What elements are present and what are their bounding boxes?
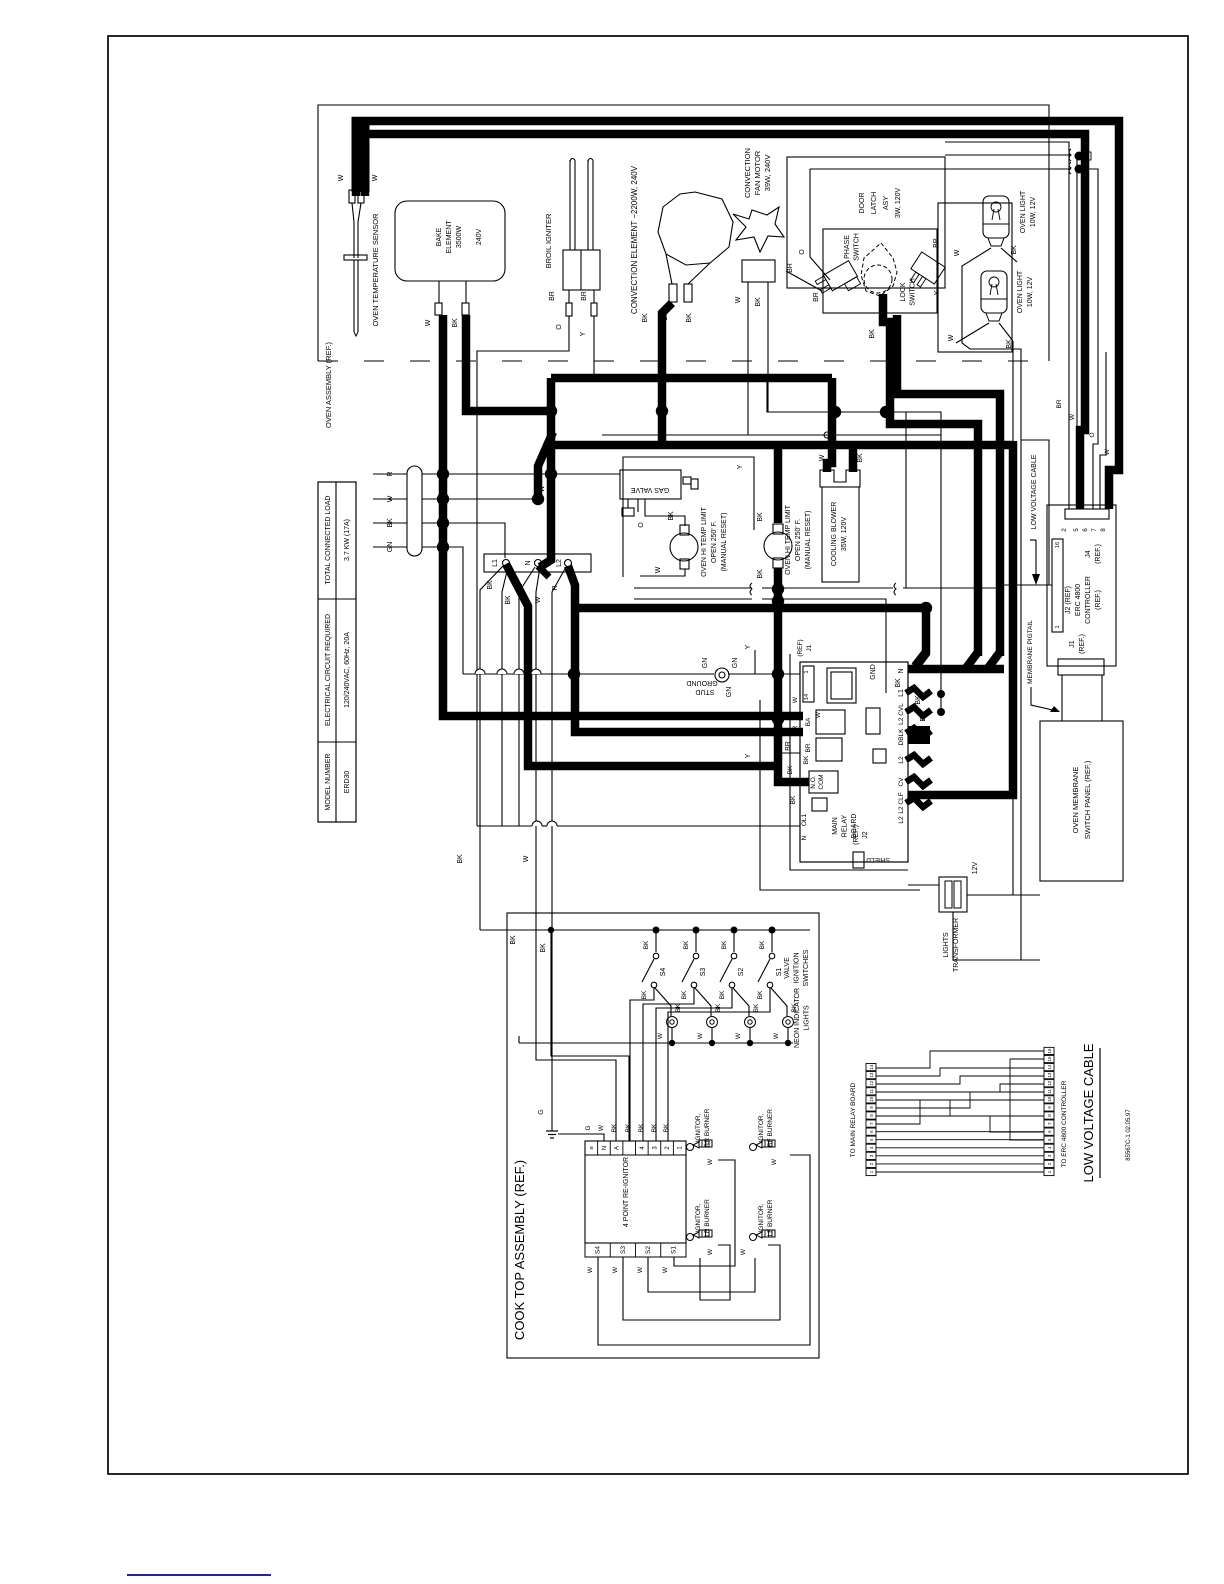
svg-text:ERD30: ERD30 <box>344 771 351 794</box>
svg-text:(REF.): (REF.) <box>853 825 860 845</box>
svg-text:SWITCH PANEL (REF.): SWITCH PANEL (REF.) <box>1083 760 1092 839</box>
svg-text:BK: BK <box>757 569 764 579</box>
svg-text:16: 16 <box>1055 542 1061 548</box>
svg-text:3.7 KW (17A): 3.7 KW (17A) <box>344 519 351 561</box>
svg-text:A: A <box>615 1146 621 1150</box>
svg-text:N: N <box>602 1146 608 1150</box>
svg-text:S1: S1 <box>670 1246 677 1254</box>
svg-text:O: O <box>799 249 806 255</box>
svg-text:S2: S2 <box>738 968 745 977</box>
svg-text:BR: BR <box>785 741 792 751</box>
svg-text:16: 16 <box>1047 1048 1052 1054</box>
svg-text:Y: Y <box>745 753 752 758</box>
svg-text:10: 10 <box>869 1096 874 1102</box>
svg-text:39W, 240V: 39W, 240V <box>763 155 772 192</box>
svg-text:R: R <box>792 725 799 730</box>
svg-text:BR: BR <box>549 291 556 301</box>
svg-text:W: W <box>662 1266 669 1273</box>
svg-text:RF BURNER: RF BURNER <box>767 1109 774 1147</box>
svg-text:N.O.: N.O. <box>810 775 817 789</box>
svg-text:BK: BK <box>759 940 766 949</box>
svg-text:W: W <box>735 1032 742 1039</box>
svg-text:W: W <box>612 1266 619 1273</box>
svg-text:LF BURNER: LF BURNER <box>767 1199 774 1236</box>
svg-text:W: W <box>740 1248 747 1255</box>
svg-text:W: W <box>792 696 799 703</box>
svg-text:10: 10 <box>1047 1096 1052 1102</box>
svg-text:GN: GN <box>702 658 709 669</box>
svg-text:4 POINT RE-IGNITOR: 4 POINT RE-IGNITOR <box>623 1157 630 1227</box>
svg-text:W: W <box>948 334 955 341</box>
svg-text:LR BURNER: LR BURNER <box>704 1199 711 1237</box>
svg-text:120/240VAC, 60Hz, 20A: 120/240VAC, 60Hz, 20A <box>344 632 351 708</box>
svg-text:(REF): (REF) <box>797 639 804 656</box>
svg-text:NEON INDICATOR: NEON INDICATOR <box>794 988 801 1048</box>
svg-text:O: O <box>1089 432 1096 437</box>
svg-text:IGNITOR,: IGNITOR, <box>758 1113 765 1142</box>
svg-text:W: W <box>707 1158 714 1165</box>
svg-text:BK: BK <box>915 695 922 705</box>
svg-text:IGNITOR,: IGNITOR, <box>758 1203 765 1232</box>
svg-text:BK: BK <box>642 313 649 323</box>
svg-text:BK: BK <box>719 990 726 999</box>
svg-text:(REF.): (REF.) <box>1095 590 1102 610</box>
svg-text:S2: S2 <box>645 1246 652 1254</box>
svg-text:BK: BK <box>641 990 648 999</box>
svg-text:J2 (REF): J2 (REF) <box>1065 586 1072 614</box>
svg-text:IGNITION: IGNITION <box>794 952 801 983</box>
svg-text:BK: BK <box>663 1123 670 1132</box>
svg-text:BK: BK <box>753 1003 760 1012</box>
svg-text:CONTROLLER: CONTROLLER <box>1085 576 1092 624</box>
svg-text:BK: BK <box>540 943 547 953</box>
svg-text:G: G <box>538 1109 545 1114</box>
svg-text:DBLK: DBLK <box>898 728 905 746</box>
svg-text:W: W <box>954 249 961 256</box>
svg-text:BK: BK <box>505 595 512 605</box>
svg-text:W: W <box>697 1032 704 1039</box>
svg-text:14: 14 <box>1047 1064 1052 1070</box>
svg-text:1: 1 <box>1055 625 1061 628</box>
svg-text:OPEN 250' F.: OPEN 250' F. <box>795 519 802 561</box>
svg-text:BK: BK <box>803 755 810 764</box>
svg-text:(MANUAL RESET): (MANUAL RESET) <box>721 513 728 572</box>
svg-text:W: W <box>819 454 826 461</box>
svg-text:J1: J1 <box>806 644 813 651</box>
svg-text:S3: S3 <box>620 1246 627 1254</box>
svg-text:G: G <box>585 1125 592 1130</box>
svg-text:BK: BK <box>686 313 693 323</box>
svg-text:L2: L2 <box>556 559 563 567</box>
svg-text:L1: L1 <box>492 559 499 567</box>
svg-text:W: W <box>539 485 546 492</box>
svg-text:85567C-1 02.05.97: 85567C-1 02.05.97 <box>1126 1109 1132 1161</box>
svg-text:GROUND: GROUND <box>686 679 717 686</box>
svg-text:MEMBRANE PIGTAIL: MEMBRANE PIGTAIL <box>1027 620 1034 684</box>
svg-text:≡: ≡ <box>589 1146 595 1150</box>
svg-text:W: W <box>1069 413 1076 420</box>
svg-text:O: O <box>638 522 645 528</box>
svg-text:MAIN: MAIN <box>832 817 839 835</box>
svg-text:W: W <box>773 1032 780 1039</box>
svg-text:J1: J1 <box>1069 640 1076 648</box>
svg-text:W: W <box>771 1158 778 1165</box>
svg-text:BK: BK <box>683 940 690 949</box>
svg-text:OVEN ASSEMBLY (REF.): OVEN ASSEMBLY (REF.) <box>324 342 333 428</box>
svg-text:OL1: OL1 <box>801 813 808 826</box>
svg-text:BA: BA <box>805 717 812 726</box>
svg-text:BR: BR <box>813 292 820 302</box>
svg-text:TO ERC 4800 CONTROLLER: TO ERC 4800 CONTROLLER <box>1061 1080 1068 1167</box>
svg-text:BK: BK <box>869 329 876 339</box>
svg-text:15: 15 <box>1047 1056 1052 1062</box>
svg-text:Y: Y <box>745 644 752 649</box>
svg-text:BK: BK <box>757 990 764 999</box>
svg-text:OVEN LIGHT: OVEN LIGHT <box>1017 270 1024 313</box>
svg-text:ELEMENT: ELEMENT <box>446 220 453 254</box>
svg-text:L2 CVL: L2 CVL <box>898 703 905 725</box>
svg-text:W: W <box>338 174 345 181</box>
svg-text:GN: GN <box>726 687 733 698</box>
svg-text:LOW VOLTAGE CABLE: LOW VOLTAGE CABLE <box>1031 454 1038 529</box>
svg-text:BAKE: BAKE <box>436 227 443 246</box>
svg-text:OPEN 250' F.: OPEN 250' F. <box>711 521 718 563</box>
svg-text:OVEN MEMBRANE: OVEN MEMBRANE <box>1071 767 1080 834</box>
svg-text:BK: BK <box>721 940 728 949</box>
svg-text:RR BURNER: RR BURNER <box>704 1108 711 1147</box>
svg-text:IGNITOR,: IGNITOR, <box>695 1113 702 1142</box>
svg-text:BK: BK <box>638 1123 645 1132</box>
svg-text:IGNITOR,: IGNITOR, <box>695 1203 702 1232</box>
svg-text:N: N <box>801 835 808 840</box>
svg-text:J4: J4 <box>1085 550 1092 558</box>
svg-text:Y: Y <box>737 464 744 469</box>
svg-text:W: W <box>657 1032 664 1039</box>
svg-text:S4: S4 <box>595 1246 602 1254</box>
svg-text:1: 1 <box>804 670 810 673</box>
svg-text:CONVECTION ELEMENT −2200W, 24: CONVECTION ELEMENT −2200W, 240V <box>630 165 639 314</box>
svg-text:BR: BR <box>581 291 588 301</box>
svg-text:(REF.): (REF.) <box>1079 634 1086 654</box>
svg-text:W: W <box>655 566 662 573</box>
svg-text:RELAY: RELAY <box>842 814 849 837</box>
svg-text:OVEN LIGHT: OVEN LIGHT <box>1020 190 1027 233</box>
svg-text:W: W <box>587 1266 594 1273</box>
svg-text:W: W <box>815 711 822 718</box>
svg-text:3500W: 3500W <box>456 226 463 249</box>
svg-text:W: W <box>707 1248 714 1255</box>
svg-text:BROIL IGNITER: BROIL IGNITER <box>544 213 553 268</box>
svg-text:3W, 120V: 3W, 120V <box>895 187 902 218</box>
svg-text:S1: S1 <box>776 968 783 977</box>
svg-text:14: 14 <box>869 1064 874 1070</box>
svg-text:STUD: STUD <box>695 688 714 695</box>
svg-text:COOK TOP ASSEMBLY (REF.): COOK TOP ASSEMBLY (REF.) <box>512 1160 527 1340</box>
svg-text:CONVECTION: CONVECTION <box>743 148 752 198</box>
svg-text:BK: BK <box>681 990 688 999</box>
svg-text:10W, 12V: 10W, 12V <box>1030 196 1037 227</box>
svg-text:GN: GN <box>732 658 739 669</box>
svg-text:BK: BK <box>755 297 762 307</box>
svg-text:LOCK: LOCK <box>900 282 907 301</box>
svg-text:COM: COM <box>818 774 825 789</box>
svg-text:BR: BR <box>787 263 794 273</box>
svg-text:35W, 120V: 35W, 120V <box>841 517 848 552</box>
svg-text:LOW VOLTAGE CABLE: LOW VOLTAGE CABLE <box>1081 1043 1096 1182</box>
svg-text:BR: BR <box>805 743 812 752</box>
svg-text:PHASE: PHASE <box>844 235 851 259</box>
svg-text:OVEN HI TEMP LIMIT: OVEN HI TEMP LIMIT <box>785 504 792 574</box>
svg-text:13: 13 <box>869 1072 874 1078</box>
svg-text:W: W <box>1104 448 1111 455</box>
svg-text:SWITCHES: SWITCHES <box>803 949 810 986</box>
svg-text:ELECTRICAL CIRCUIT REQUIRED: ELECTRICAL CIRCUIT REQUIRED <box>325 614 332 726</box>
svg-text:BK: BK <box>668 511 675 521</box>
svg-text:BK: BK <box>651 1123 658 1132</box>
svg-text:OVEN HI TEMP LIMIT: OVEN HI TEMP LIMIT <box>701 506 708 576</box>
svg-text:VALVE: VALVE <box>784 957 791 979</box>
svg-text:TOTAL CONNECTED LOAD: TOTAL CONNECTED LOAD <box>325 496 332 585</box>
svg-text:O: O <box>556 324 563 330</box>
svg-text:LATCH: LATCH <box>871 192 878 214</box>
svg-text:BK: BK <box>790 795 797 804</box>
svg-text:W: W <box>372 174 379 181</box>
svg-text:BK: BK <box>757 512 764 522</box>
svg-text:BK: BK <box>857 453 864 463</box>
svg-text:LIGHTS: LIGHTS <box>804 1005 811 1031</box>
svg-text:BK: BK <box>611 1123 618 1132</box>
svg-text:S4: S4 <box>660 968 667 977</box>
svg-text:11: 11 <box>1047 1088 1052 1093</box>
svg-text:10W, 12V: 10W, 12V <box>1027 276 1034 307</box>
svg-text:S3: S3 <box>700 968 707 977</box>
svg-text:CV: CV <box>898 777 905 787</box>
svg-text:BR: BR <box>933 238 940 248</box>
svg-text:L2 CLF: L2 CLF <box>898 792 905 813</box>
svg-text:12: 12 <box>1047 1080 1052 1086</box>
svg-text:240V: 240V <box>476 229 483 246</box>
svg-text:L2: L2 <box>898 816 905 824</box>
svg-text:L1: L1 <box>898 689 905 697</box>
svg-text:SWITCH: SWITCH <box>854 233 861 261</box>
svg-text:BK: BK <box>452 318 459 328</box>
svg-text:12: 12 <box>869 1080 874 1086</box>
svg-text:W: W <box>735 296 742 303</box>
svg-text:TO MAIN RELAY BOARD: TO MAIN RELAY BOARD <box>850 1082 857 1157</box>
svg-text:BK: BK <box>643 940 650 949</box>
svg-text:OVEN TEMPERATURE SENSOR: OVEN TEMPERATURE SENSOR <box>371 213 380 327</box>
svg-text:BR: BR <box>1056 399 1063 408</box>
svg-text:W: W <box>523 855 530 862</box>
svg-text:ERC 4800: ERC 4800 <box>1075 584 1082 616</box>
svg-text:ASY: ASY <box>883 196 890 210</box>
svg-text:BK: BK <box>510 935 517 945</box>
svg-text:N: N <box>525 560 532 565</box>
svg-text:MODEL NUMBER: MODEL NUMBER <box>325 754 332 811</box>
svg-text:BK: BK <box>920 712 927 722</box>
svg-text:(MANUAL RESET): (MANUAL RESET) <box>805 511 812 570</box>
svg-text:BK: BK <box>457 854 464 864</box>
svg-text:14: 14 <box>804 694 810 700</box>
svg-text:W: W <box>598 1124 605 1131</box>
svg-text:J2: J2 <box>862 831 869 839</box>
svg-text:FAN MOTOR: FAN MOTOR <box>753 150 762 195</box>
svg-text:Y: Y <box>580 331 587 336</box>
svg-text:GND: GND <box>870 664 877 680</box>
svg-text:W: W <box>637 1266 644 1273</box>
svg-text:SHIELD: SHIELD <box>866 856 890 863</box>
svg-text:LIGHTS: LIGHTS <box>943 932 950 958</box>
svg-text:TRANSFORMER: TRANSFORMER <box>953 918 960 972</box>
svg-text:12V: 12V <box>972 861 979 874</box>
svg-text:13: 13 <box>1047 1072 1052 1078</box>
svg-text:L2: L2 <box>898 756 905 764</box>
svg-text:COOLING BLOWER: COOLING BLOWER <box>831 502 838 567</box>
svg-text:N: N <box>898 668 905 673</box>
svg-text:GAS VALVE: GAS VALVE <box>631 486 670 493</box>
svg-text:BK: BK <box>895 678 902 688</box>
svg-text:(REF.): (REF.) <box>1095 544 1102 564</box>
svg-text:11: 11 <box>869 1088 874 1093</box>
svg-text:W: W <box>425 319 432 326</box>
svg-text:BK: BK <box>625 1123 632 1132</box>
svg-text:DOOR: DOOR <box>859 193 866 214</box>
